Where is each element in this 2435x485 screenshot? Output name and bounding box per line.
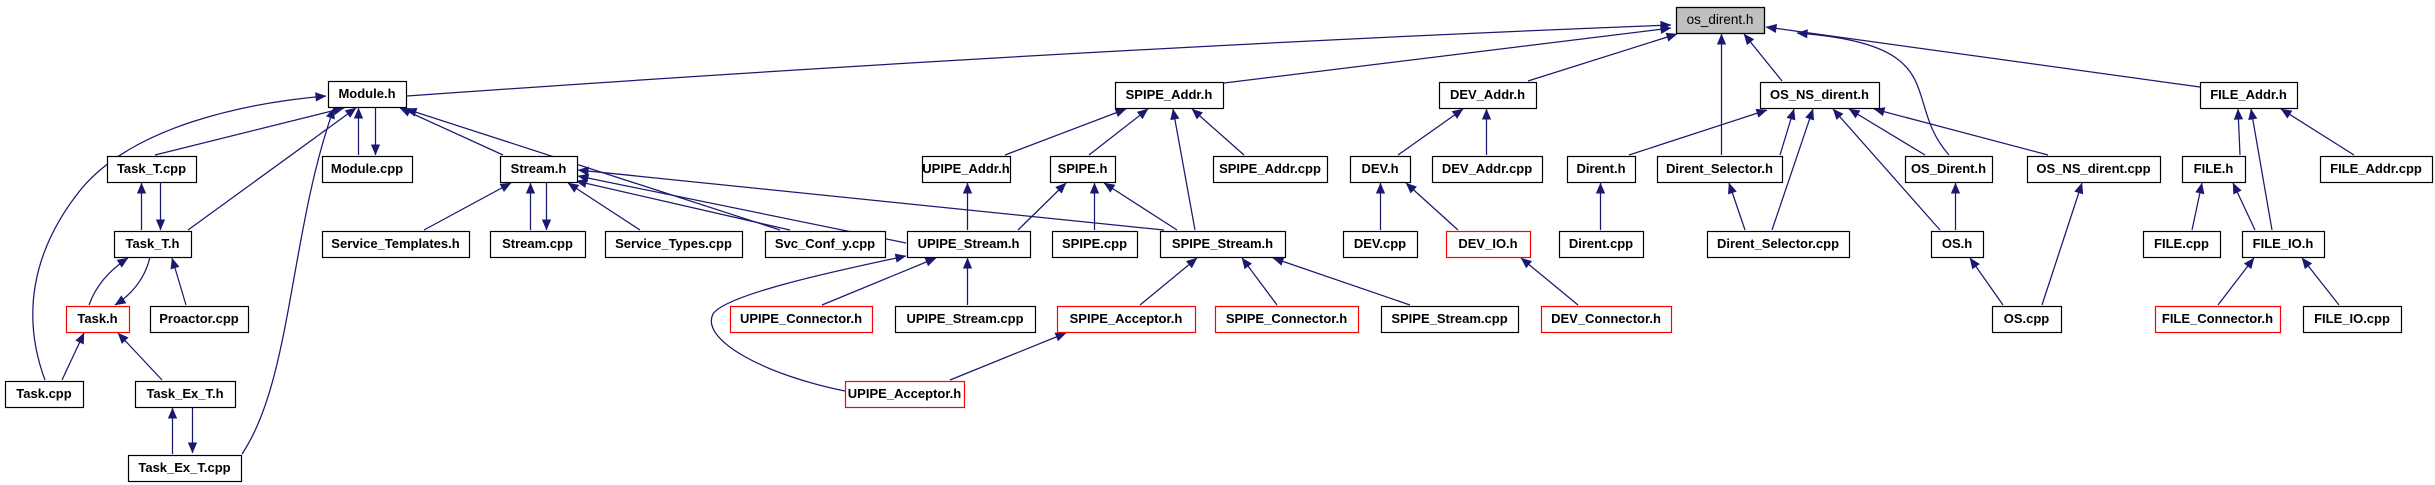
svg-text:FILE_Connector.h: FILE_Connector.h bbox=[2162, 311, 2273, 326]
node SPIPE_Stream.cpp bbox=[1382, 307, 1519, 333]
wire edge UPIPE_Stream.h->UPIPE_Addr.h bbox=[967, 183, 969, 230]
svg-text:Dirent_Selector.h: Dirent_Selector.h bbox=[1666, 161, 1773, 176]
svg-text:DEV.h: DEV.h bbox=[1361, 161, 1398, 176]
wire edge Module.h->Module.cpp bbox=[375, 107, 377, 155]
wire edge OS_Dirent.h->OS_NS_dirent.h bbox=[1849, 109, 1925, 155]
svg-text:Proactor.cpp: Proactor.cpp bbox=[159, 311, 239, 326]
wire edge Stream.h->Stream.cpp bbox=[546, 182, 548, 230]
svg-text:Svc_Conf_y.cpp: Svc_Conf_y.cpp bbox=[775, 236, 875, 251]
wire edge OS.cpp->OS_NS_dirent.cpp bbox=[2042, 183, 2082, 305]
node DEV.cpp bbox=[1344, 232, 1418, 258]
wire edge SPIPE_Stream.h->SPIPE_Addr.h bbox=[1173, 109, 1195, 230]
svg-text:SPIPE_Acceptor.h: SPIPE_Acceptor.h bbox=[1070, 311, 1183, 326]
wire edge SPIPE_Acceptor.h->SPIPE_Stream.h bbox=[1140, 258, 1197, 305]
wire edge Task.cpp->Task.h bbox=[62, 333, 84, 380]
wire edge FILE_Addr.cpp->FILE_Addr.h bbox=[2281, 109, 2354, 155]
wire edge UPIPE_Stream.h->Stream.h bbox=[578, 176, 906, 243]
wire edge DEV_IO.h->DEV.h bbox=[1406, 183, 1458, 230]
wire edge Dirent.cpp->Dirent.h bbox=[1600, 183, 1602, 230]
wire edge Task_T.h->Task.h bbox=[115, 257, 150, 305]
node Task_Ex_T.h bbox=[136, 382, 236, 408]
wire edge Svc_Conf_y.cpp->Stream.h bbox=[576, 181, 790, 230]
wire edge Svc_Conf_y.cpp->Module.h bbox=[406, 109, 780, 230]
node DEV.h bbox=[1351, 157, 1411, 183]
wire edge OS.cpp->OS.h bbox=[1970, 258, 2003, 305]
node Dirent_Selector.cpp bbox=[1708, 232, 1850, 258]
wire edge OS_NS_dirent.cpp->OS_NS_dirent.h bbox=[1874, 109, 2048, 155]
node Svc_Conf_y.cpp bbox=[766, 232, 886, 258]
wire edge OS.h->OS_Dirent.h bbox=[1955, 183, 1957, 230]
svg-text:SPIPE_Connector.h: SPIPE_Connector.h bbox=[1226, 311, 1347, 326]
node DEV_Addr.cpp bbox=[1433, 157, 1543, 183]
wire edge UPIPE_Stream.cpp->UPIPE_Stream.h bbox=[967, 258, 969, 305]
wire edge SPIPE.h->SPIPE_Addr.h bbox=[1089, 109, 1148, 155]
node Module.h bbox=[329, 82, 407, 108]
wire edge Task_Ex_T.cpp->Task_Ex_T.h bbox=[172, 408, 174, 454]
wire edge SPIPE_Addr.cpp->SPIPE_Addr.h bbox=[1192, 109, 1244, 155]
svg-text:FILE.h: FILE.h bbox=[2194, 161, 2234, 176]
node Stream.cpp bbox=[491, 232, 586, 258]
node UPIPE_Connector.h bbox=[731, 307, 873, 333]
svg-text:SPIPE_Stream.h: SPIPE_Stream.h bbox=[1172, 236, 1273, 251]
node OS.h bbox=[1932, 232, 1984, 258]
wire edge SPIPE.cpp->SPIPE.h bbox=[1094, 183, 1096, 230]
node Task_Ex_T.cpp bbox=[129, 456, 242, 482]
svg-text:Task_Ex_T.cpp: Task_Ex_T.cpp bbox=[138, 460, 230, 475]
wire edge Task_T.h->Task_T.cpp bbox=[141, 183, 143, 230]
node SPIPE_Connector.h bbox=[1216, 307, 1359, 333]
node os_dirent.h bbox=[1677, 8, 1765, 34]
wire edge OS_NS_dirent.h->os_dirent.h bbox=[1744, 34, 1782, 81]
svg-text:SPIPE.h: SPIPE.h bbox=[1058, 161, 1108, 176]
wire edge FILE.h->FILE_Addr.h bbox=[2238, 109, 2240, 155]
wire edge OS.h->OS_NS_dirent.h bbox=[1833, 109, 1940, 230]
svg-text:os_dirent.h: os_dirent.h bbox=[1687, 12, 1754, 27]
wire edge DEV_Addr.cpp->DEV_Addr.h bbox=[1486, 109, 1488, 155]
svg-text:OS.h: OS.h bbox=[1942, 236, 1972, 251]
node Dirent.h bbox=[1568, 157, 1636, 183]
node OS_Dirent.h bbox=[1906, 157, 1993, 183]
svg-text:SPIPE_Addr.cpp: SPIPE_Addr.cpp bbox=[1219, 161, 1321, 176]
node DEV_IO.h bbox=[1447, 232, 1531, 258]
node Service_Templates.h bbox=[323, 232, 470, 258]
wire edge UPIPE_Acceptor.h->SPIPE_Acceptor.h bbox=[950, 333, 1066, 380]
wire edge Dirent.h->OS_NS_dirent.h bbox=[1629, 110, 1767, 155]
node Task_T.h bbox=[115, 232, 192, 258]
node OS.cpp bbox=[1993, 307, 2062, 333]
wire edge Dirent_Selector.h->os_dirent.h bbox=[1721, 34, 1723, 155]
node Module.cpp bbox=[323, 157, 413, 183]
node FILE_Addr.cpp bbox=[2321, 157, 2433, 183]
wire edge FILE_Addr.h->os_dirent.h bbox=[1766, 27, 2200, 87]
svg-text:DEV_Addr.cpp: DEV_Addr.cpp bbox=[1442, 161, 1532, 176]
wire edge Dirent_Selector.h->OS_NS_dirent.h bbox=[1780, 109, 1794, 155]
wire edge UPIPE_Connector.h->UPIPE_Stream.h bbox=[822, 258, 936, 305]
wire edge SPIPE_Stream.cpp->SPIPE_Stream.h bbox=[1273, 258, 1410, 305]
svg-text:UPIPE_Stream.h: UPIPE_Stream.h bbox=[918, 236, 1020, 251]
svg-text:Module.h: Module.h bbox=[338, 86, 395, 101]
svg-text:OS_NS_dirent.h: OS_NS_dirent.h bbox=[1770, 87, 1869, 102]
node Dirent_Selector.h bbox=[1658, 157, 1783, 183]
svg-text:FILE_Addr.h: FILE_Addr.h bbox=[2210, 87, 2287, 102]
wire edge Proactor.cpp->Task_T.h bbox=[172, 258, 186, 305]
node UPIPE_Acceptor.h bbox=[846, 382, 965, 408]
node SPIPE_Addr.cpp bbox=[1214, 157, 1328, 183]
svg-text:DEV_Addr.h: DEV_Addr.h bbox=[1450, 87, 1525, 102]
wire edge FILE.cpp->FILE.h bbox=[2192, 183, 2202, 230]
wire edge OS_Dirent.h->os_dirent.h bbox=[1797, 33, 1949, 155]
node OS_NS_dirent.h bbox=[1761, 83, 1880, 109]
wire edge FILE_IO.h->FILE_Addr.h bbox=[2251, 109, 2272, 230]
node FILE_Addr.h bbox=[2201, 83, 2298, 109]
wire edge Module.h->os_dirent.h bbox=[407, 25, 1671, 96]
node Task.h bbox=[67, 307, 130, 333]
svg-text:Task_Ex_T.h: Task_Ex_T.h bbox=[146, 386, 223, 401]
svg-text:Stream.h: Stream.h bbox=[511, 161, 567, 176]
wire edge DEV_Addr.h->os_dirent.h bbox=[1528, 34, 1677, 81]
wire edge Task_T.h->Module.h bbox=[188, 108, 356, 230]
node SPIPE.cpp bbox=[1053, 232, 1138, 258]
wire edge Task_T.cpp->Task_T.h bbox=[160, 183, 162, 230]
svg-text:Dirent.h: Dirent.h bbox=[1576, 161, 1625, 176]
node SPIPE.h bbox=[1051, 157, 1116, 183]
svg-text:FILE.cpp: FILE.cpp bbox=[2154, 236, 2209, 251]
svg-text:DEV_Connector.h: DEV_Connector.h bbox=[1551, 311, 1661, 326]
svg-text:SPIPE_Addr.h: SPIPE_Addr.h bbox=[1126, 87, 1213, 102]
wire edge Stream.cpp->Stream.h bbox=[530, 183, 532, 230]
wire edge DEV_Connector.h->DEV_IO.h bbox=[1521, 258, 1578, 305]
node UPIPE_Stream.cpp bbox=[896, 307, 1036, 333]
svg-text:FILE_IO.cpp: FILE_IO.cpp bbox=[2314, 311, 2390, 326]
node Task.cpp bbox=[6, 382, 84, 408]
wire edge Task.cpp->Module.h bbox=[33, 96, 326, 380]
wire edge FILE_IO.h->FILE.h bbox=[2233, 183, 2255, 230]
wire edge DEV.cpp->DEV.h bbox=[1380, 183, 1382, 230]
svg-text:SPIPE.cpp: SPIPE.cpp bbox=[1062, 236, 1127, 251]
node Proactor.cpp bbox=[151, 307, 249, 333]
wire edge Service_Types.cpp->Stream.h bbox=[568, 183, 640, 230]
svg-text:OS_NS_dirent.cpp: OS_NS_dirent.cpp bbox=[2036, 161, 2150, 176]
node FILE.h bbox=[2183, 157, 2246, 183]
wire edge SPIPE_Connector.h->SPIPE_Stream.h bbox=[1242, 258, 1277, 305]
svg-text:UPIPE_Addr.h: UPIPE_Addr.h bbox=[922, 161, 1009, 176]
wire edge FILE_Connector.h->FILE_IO.h bbox=[2218, 258, 2254, 305]
node SPIPE_Acceptor.h bbox=[1058, 307, 1196, 333]
node FILE_IO.cpp bbox=[2304, 307, 2402, 333]
wire edge Dirent_Selector.cpp->Dirent_Selector.h bbox=[1729, 183, 1745, 230]
wire edge Task_Ex_T.h->Task.h bbox=[118, 333, 162, 380]
svg-text:OS_Dirent.h: OS_Dirent.h bbox=[1911, 161, 1986, 176]
wire edge FILE_IO.cpp->FILE_IO.h bbox=[2302, 258, 2339, 305]
svg-text:Task.h: Task.h bbox=[77, 311, 117, 326]
svg-text:UPIPE_Stream.cpp: UPIPE_Stream.cpp bbox=[906, 311, 1023, 326]
svg-text:Task.cpp: Task.cpp bbox=[16, 386, 71, 401]
wire edge Task.h->Task_T.h bbox=[89, 258, 128, 305]
svg-text:FILE_IO.h: FILE_IO.h bbox=[2253, 236, 2314, 251]
wire edge UPIPE_Acceptor.h->UPIPE_Stream.h bbox=[711, 256, 906, 391]
node UPIPE_Stream.h bbox=[908, 232, 1031, 258]
node OS_NS_dirent.cpp bbox=[2028, 157, 2161, 183]
svg-text:FILE_Addr.cpp: FILE_Addr.cpp bbox=[2330, 161, 2422, 176]
wire edge Dirent_Selector.cpp->OS_NS_dirent.h bbox=[1772, 109, 1813, 230]
node SPIPE_Addr.h bbox=[1116, 83, 1224, 109]
node Task_T.cpp bbox=[108, 157, 197, 183]
node Dirent.cpp bbox=[1560, 232, 1644, 258]
node Stream.h bbox=[501, 157, 578, 183]
svg-text:Service_Types.cpp: Service_Types.cpp bbox=[615, 236, 732, 251]
wire edge SPIPE_Stream.h->SPIPE.h bbox=[1104, 183, 1177, 230]
wire edge Task_Ex_T.cpp->Module.h bbox=[242, 108, 334, 454]
svg-text:OS.cpp: OS.cpp bbox=[2004, 311, 2050, 326]
node FILE_IO.h bbox=[2243, 232, 2325, 258]
svg-text:DEV.cpp: DEV.cpp bbox=[1354, 236, 1406, 251]
svg-text:UPIPE_Connector.h: UPIPE_Connector.h bbox=[740, 311, 862, 326]
wire edge Task_Ex_T.h->Task_Ex_T.cpp bbox=[192, 407, 194, 453]
wire edge DEV.h->DEV_Addr.h bbox=[1398, 109, 1463, 155]
node FILE.cpp bbox=[2144, 232, 2221, 258]
node Service_Types.cpp bbox=[606, 232, 743, 258]
svg-text:Task_T.cpp: Task_T.cpp bbox=[117, 161, 186, 176]
svg-text:SPIPE_Stream.cpp: SPIPE_Stream.cpp bbox=[1391, 311, 1507, 326]
svg-text:Dirent.cpp: Dirent.cpp bbox=[1569, 236, 1633, 251]
wire edge SPIPE_Addr.h->os_dirent.h bbox=[1224, 28, 1671, 83]
wire edge Stream.h->Module.h bbox=[400, 108, 503, 155]
svg-text:Service_Templates.h: Service_Templates.h bbox=[331, 236, 459, 251]
wire edge UPIPE_Stream.h->SPIPE.h bbox=[1018, 183, 1066, 230]
wire edge Task_T.cpp->Module.h bbox=[155, 108, 344, 155]
node UPIPE_Addr.h bbox=[922, 157, 1010, 183]
svg-text:Module.cpp: Module.cpp bbox=[331, 161, 403, 176]
node FILE_Connector.h bbox=[2156, 307, 2281, 333]
node DEV_Connector.h bbox=[1542, 307, 1672, 333]
wire edge Module.cpp->Module.h bbox=[358, 108, 360, 155]
node DEV_Addr.h bbox=[1440, 83, 1537, 109]
svg-text:DEV_IO.h: DEV_IO.h bbox=[1458, 236, 1517, 251]
node SPIPE_Stream.h bbox=[1161, 232, 1286, 258]
svg-text:Dirent_Selector.cpp: Dirent_Selector.cpp bbox=[1717, 236, 1839, 251]
svg-text:Stream.cpp: Stream.cpp bbox=[502, 236, 573, 251]
wire edge UPIPE_Addr.h->SPIPE_Addr.h bbox=[1005, 109, 1126, 155]
wire edge Service_Templates.h->Stream.h bbox=[424, 183, 511, 230]
wire edge SPIPE_Stream.h->Stream.h bbox=[578, 170, 1164, 230]
svg-text:Task_T.h: Task_T.h bbox=[126, 236, 180, 251]
svg-text:UPIPE_Acceptor.h: UPIPE_Acceptor.h bbox=[848, 386, 961, 401]
